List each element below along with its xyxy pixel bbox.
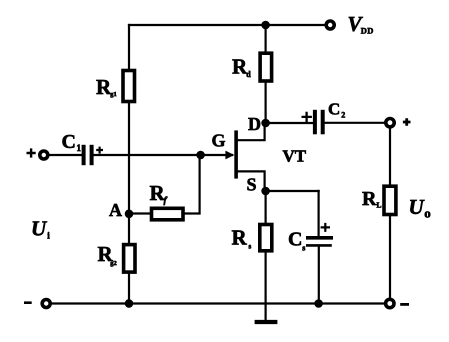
label Rf [150,181,168,206]
wire C2 to output terminal [325,122,390,124]
svg-text:L: L [377,201,382,210]
svg-text:C: C [328,99,340,118]
capacitor Cs [306,238,333,246]
output - sign [400,303,409,306]
node D [261,119,270,128]
label C1 [62,131,82,153]
capacitor C2 [315,110,323,135]
C2 polarity + [302,112,312,122]
wire top rail VDD [129,24,326,26]
label Uo [409,195,431,221]
svg-text:D: D [248,114,261,134]
label Rg2 [98,242,117,267]
resistor RL [384,186,396,214]
label Rs [232,226,252,251]
input + sign [27,148,36,157]
wire bottom rail [46,302,390,304]
resistor Rf (horizontal, node A to gate) [152,208,184,220]
wire S node down to Rs and ground [265,191,267,321]
label RL [362,188,382,210]
node A [125,210,134,219]
wire input line C1 to gate [47,154,232,156]
capacitor C1 [84,145,92,165]
label Rd [232,55,251,79]
transistor VT drain lead [237,123,265,140]
label Rg1 [96,75,117,99]
label Ui [31,217,50,241]
transistor VT (JFET) bar [234,130,238,178]
terminal input bottom [42,300,50,308]
ground [255,320,278,324]
svg-text:DD: DD [361,26,374,36]
svg-text:R: R [362,188,377,210]
Cs polarity + [321,223,330,232]
node junction gate line / Rf [196,151,205,160]
svg-text:S: S [247,175,257,195]
C1 polarity + [96,147,103,154]
svg-text:G: G [212,131,226,151]
transistor VT gate arrow [225,151,234,160]
node junction bottom rail / Cs [314,299,323,308]
svg-text:o: o [424,206,431,221]
terminal input top [40,151,48,159]
svg-text:C: C [288,228,302,250]
svg-text:VT: VT [283,147,307,166]
output + sign [403,118,411,126]
svg-text:s: s [249,243,252,251]
svg-text:2: 2 [341,111,345,120]
svg-text:1: 1 [77,143,82,153]
wire Rf right segment up to gate line [183,155,199,214]
terminal output bottom [386,299,394,307]
svg-text:U: U [409,195,426,219]
svg-text:U: U [31,217,48,241]
wire Cs vertical branch [318,191,320,304]
label VDD [348,12,374,36]
resistor Rg2 [124,245,135,273]
resistor Rd [260,53,272,81]
wire S node to Cs [266,190,319,192]
node junction top rail / drain [261,21,270,30]
wire drain vertical (VDD to D) [265,25,267,123]
svg-text:C: C [62,131,76,153]
label C2 [328,99,345,119]
wire right vertical RL branch [389,123,391,304]
svg-text:R: R [232,226,248,250]
svg-text:A: A [109,200,122,220]
svg-text:g1: g1 [110,91,117,98]
node S [261,187,270,196]
node junction bottom rail / left branch [125,299,134,308]
terminal output top [386,119,394,127]
wire node A to Rf [129,212,151,214]
wire D node to C2 [266,122,313,124]
svg-text:d: d [246,70,251,79]
resistor Rg1 [123,71,135,102]
resistor Rs [260,225,272,251]
terminal VDD [326,21,334,29]
transistor VT source lead [237,171,265,191]
label Cs [288,228,305,252]
svg-text:g2: g2 [110,260,117,267]
svg-text:s: s [302,244,305,253]
input - sign [24,301,32,304]
wire left vertical (Rg1/Rg2 branch) [128,25,130,304]
